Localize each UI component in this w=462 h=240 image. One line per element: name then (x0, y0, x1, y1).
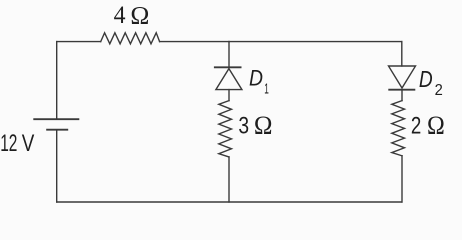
svg-text:Ω: Ω (254, 111, 273, 140)
svg-text:Ω: Ω (427, 111, 445, 140)
wire top-middle segment (160, 41, 229, 43)
wire bottom (57, 201, 402, 203)
svg-text:2: 2 (435, 82, 443, 99)
diode D2 triangle (389, 66, 416, 88)
battery V1 long plate (33, 118, 79, 120)
svg-text:D: D (419, 66, 433, 92)
diode D1 cathode bar (214, 66, 242, 68)
wire middle between D1 and R2 (228, 90, 230, 101)
svg-text:2: 2 (411, 113, 421, 140)
resistor 2ohm zigzag (392, 101, 405, 156)
wire middle bottom (228, 157, 230, 202)
resistor 3ohm zigzag (219, 101, 232, 157)
resistor 4ohm zigzag (101, 33, 160, 44)
svg-text:V: V (22, 130, 35, 157)
wire top-left segment (57, 41, 101, 43)
wire right bottom (401, 156, 403, 202)
wire right between D2 and R3 (401, 90, 403, 101)
wire left upper (56, 42, 58, 119)
svg-text:4: 4 (114, 0, 126, 29)
svg-text:3: 3 (238, 113, 249, 140)
svg-text:D: D (249, 66, 263, 91)
wire left lower (56, 131, 58, 202)
wire middle top (228, 42, 230, 67)
wire top-right segment (229, 41, 402, 43)
svg-text:Ω: Ω (130, 1, 149, 30)
svg-text:12: 12 (0, 130, 17, 157)
wire right top (401, 42, 403, 66)
svg-text:1: 1 (264, 81, 269, 97)
diode D2 cathode bar (388, 89, 415, 91)
battery V1 short plate (46, 129, 68, 131)
diode D1 triangle (216, 69, 242, 90)
